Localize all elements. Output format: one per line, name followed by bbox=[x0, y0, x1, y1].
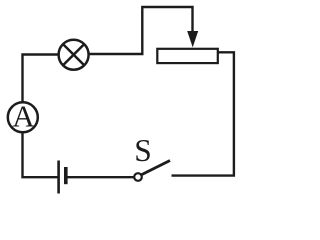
svg-text:A: A bbox=[12, 99, 35, 134]
svg-text:S: S bbox=[134, 133, 152, 168]
